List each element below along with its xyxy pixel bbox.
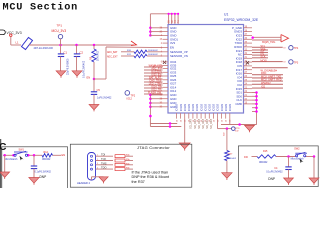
svg-text:4R7-2A-0603-DR: 4R7-2A-0603-DR: [34, 47, 54, 50]
svg-text:MOSI: MOSI: [260, 60, 267, 63]
svg-text:MCU_3V3: MCU_3V3: [52, 29, 67, 33]
wire right GND bus: [256, 93, 258, 125]
svg-text:DNP the R36 & Mount: DNP the R36 & Mount: [132, 175, 170, 179]
power net arrow on rail: [131, 41, 137, 46]
ground below U1: [179, 143, 190, 149]
svg-text:0.1uF6.3V0402: 0.1uF6.3V0402: [83, 60, 86, 78]
wire net IO12_TP: [144, 90, 163, 92]
svg-text:L1: L1: [16, 41, 20, 45]
svg-text:JTAG Connector: JTAG Connector: [137, 145, 170, 150]
svg-text:ADC_BAT: ADC_BAT: [107, 51, 118, 54]
svg-text:ADC_EXT: ADC_EXT: [107, 55, 118, 58]
svg-text:SD_DAT: SD_DAT: [206, 119, 209, 129]
svg-text:6: 6: [161, 62, 163, 64]
svg-text:0.1uF6.3V0402: 0.1uF6.3V0402: [35, 170, 52, 173]
svg-text:16: 16: [222, 119, 224, 122]
svg-text:1uF6.3V0402: 1uF6.3V0402: [97, 97, 112, 100]
svg-text:3V3: 3V3: [170, 41, 176, 45]
svg-text:IO: IO: [284, 62, 287, 64]
svg-text:IO13S: IO13S: [228, 104, 232, 112]
wire JTAG gnd stem: [91, 177, 93, 180]
svg-text:SW2: SW2: [294, 147, 300, 150]
wire 3V3 rail: [29, 44, 134, 46]
no-connect NC: [246, 61, 249, 64]
wire SW1 left to ground: [4, 155, 6, 172]
svg-text:11: 11: [160, 80, 163, 82]
ground C2: [72, 71, 82, 76]
svg-text:TP1: TP1: [57, 24, 63, 28]
connector J2 HEADER 4: [88, 153, 96, 181]
svg-text:WS2812: WS2812: [261, 82, 271, 85]
svg-text:SCK: SCK: [260, 56, 265, 59]
svg-text:SENSOR_VN: SENSOR_VN: [170, 54, 188, 58]
svg-text:C5: C5: [97, 88, 101, 92]
svg-text:IO13S: IO13S: [183, 104, 187, 112]
svg-text:0R0402: 0R0402: [42, 158, 51, 161]
svg-text:EN: EN: [62, 153, 66, 157]
svg-text:IO13S: IO13S: [175, 104, 179, 112]
wire GND bus bottom-left: [149, 95, 151, 127]
U1 right pins: [244, 27, 253, 29]
wire net MCU_UART_RXD: [252, 80, 283, 82]
ground C5: [89, 105, 99, 110]
svg-text:C1: C1: [64, 51, 68, 55]
capacitor C5: [93, 79, 95, 92]
ground R37: [222, 173, 232, 179]
test point TP9: [232, 127, 236, 131]
svg-text:IO13S: IO13S: [179, 104, 183, 112]
wire SW2 right to ground: [313, 157, 315, 179]
svg-text:IO13S: IO13S: [212, 104, 216, 112]
wire W_DISABLE#: [252, 67, 288, 69]
svg-text:100K0402: 100K0402: [148, 54, 159, 56]
svg-text:DNP: DNP: [268, 177, 275, 181]
svg-text:IO13S: IO13S: [195, 104, 199, 112]
svg-text:TP3: TP3: [294, 61, 299, 64]
svg-text:IO13S: IO13S: [199, 104, 203, 112]
svg-text:ESP32_WROOM_32E: ESP32_WROOM_32E: [224, 18, 259, 22]
wire BQ25_TRG with off-page arrow: [252, 36, 281, 38]
U1 bottom pins: [176, 113, 178, 119]
wire net ADC_PY: [144, 69, 163, 71]
svg-text:VCC_3V3: VCC_3V3: [7, 31, 22, 35]
svg-text:IO13S: IO13S: [216, 104, 220, 112]
svg-text:SD_DAT: SD_DAT: [198, 119, 201, 129]
ground right bus: [245, 125, 255, 130]
test point TP3: [289, 60, 293, 64]
svg-text:16: 16: [181, 119, 183, 122]
ground SW2: [309, 178, 319, 183]
box JTAG connector group: [70, 144, 192, 187]
svg-text:IO0: IO0: [244, 156, 249, 159]
svg-text:TMS: TMS: [101, 161, 107, 165]
svg-text:TP4: TP4: [294, 47, 299, 50]
ground SW1: [0, 172, 10, 177]
wire net BUZZER: [144, 72, 163, 74]
wire net LED_CTRL: [144, 84, 163, 86]
wire net MCU_UART_TXD: [252, 77, 283, 79]
svg-text:IO0: IO0: [224, 132, 226, 136]
svg-text:IO13S: IO13S: [187, 104, 191, 112]
svg-text:SD_DAT: SD_DAT: [194, 119, 197, 129]
U1 left pins: [163, 27, 169, 29]
svg-text:15: 15: [159, 39, 162, 41]
inductor L1: [22, 38, 33, 50]
U1 top pins: [168, 14, 170, 25]
svg-text:TDI: TDI: [101, 153, 105, 157]
svg-text:the R37: the R37: [132, 180, 145, 184]
svg-text:R3x: R3x: [126, 155, 130, 157]
svg-text:MicroSwitch: MicroSwitch: [5, 158, 19, 161]
resistor R5 10K0402: [93, 45, 95, 49]
svg-text:TCK: TCK: [101, 157, 106, 161]
svg-text:IO13S: IO13S: [203, 104, 207, 112]
test point TP2 IO12: [125, 91, 130, 96]
svg-text:IO2: IO2: [261, 86, 266, 89]
svg-text:10K0402: 10K0402: [97, 50, 100, 61]
svg-text:SD_DAT: SD_DAT: [210, 119, 213, 129]
svg-text:C2: C2: [80, 51, 84, 55]
ground C4: [284, 178, 294, 183]
svg-text:MicroSwitch: MicroSwitch: [291, 158, 305, 161]
svg-text:C4: C4: [274, 167, 278, 170]
wire SW1 row: [3, 154, 14, 156]
MCU U1 ESP32_WROOM_32E: [168, 25, 244, 114]
wire IO5 to TP3: [252, 61, 283, 63]
box IO0 switch group: [238, 146, 318, 187]
capacitor C1: [60, 45, 62, 54]
svg-text:U1: U1: [224, 13, 228, 17]
svg-text:IO12: IO12: [127, 98, 133, 101]
svg-text:R15: R15: [263, 150, 268, 153]
wire EN to U1: [94, 78, 106, 80]
svg-text:IO13S: IO13S: [224, 104, 228, 112]
sheet border + zone C: [0, 139, 2, 188]
wire SDA: [252, 49, 268, 51]
capacitor C3 DNP: [33, 155, 35, 166]
svg-text:41: 41: [177, 20, 180, 23]
svg-text:0.1uF6.3V0402: 0.1uF6.3V0402: [266, 171, 283, 174]
svg-text:2: 2: [161, 43, 163, 45]
svg-text:16: 16: [176, 119, 178, 122]
wire net WS2812: [252, 83, 283, 85]
svg-text:HEADER 4: HEADER 4: [77, 181, 91, 185]
ground C1: [56, 71, 66, 76]
svg-text:0R0402: 0R0402: [228, 158, 236, 160]
svg-text:IO13S: IO13S: [220, 104, 224, 112]
svg-text:16: 16: [226, 119, 228, 122]
resistor R37 0R0402: [225, 151, 229, 161]
svg-text:R3x: R3x: [126, 168, 130, 170]
wire IO18: [252, 57, 268, 59]
wire net BAT_ALRT: [144, 78, 163, 80]
svg-text:0R0402: 0R0402: [259, 161, 268, 164]
svg-text:IO13S: IO13S: [191, 104, 195, 112]
svg-text:BQ25_TRG: BQ25_TRG: [262, 41, 275, 44]
svg-text:SD_DAT: SD_DAT: [190, 119, 193, 129]
svg-text:16: 16: [213, 119, 215, 122]
svg-text:CMD: CMD: [235, 102, 242, 106]
ground JTAG: [99, 177, 108, 182]
svg-text:TDO: TDO: [101, 166, 106, 170]
wire IO21: [252, 52, 268, 54]
ground C3: [29, 178, 39, 184]
power port VCC_3V3: [0, 30, 5, 35]
capacitor C4 DNP: [288, 157, 290, 167]
svg-text:IO13S: IO13S: [208, 104, 212, 112]
wire IO19: [252, 54, 268, 56]
svg-text:SD_DAT: SD_DAT: [202, 119, 205, 129]
box EN switch group: [2, 147, 68, 189]
wire IO0 to R37: [217, 119, 219, 129]
svg-text:IO2: IO2: [235, 130, 239, 132]
svg-text:MCU Section: MCU Section: [3, 2, 79, 14]
wire net WKUP_INT: [144, 66, 163, 68]
wire net CHG_TRG: [144, 81, 163, 83]
svg-text:SW1: SW1: [19, 148, 25, 151]
svg-text:If the JTAG used than: If the JTAG used than: [132, 170, 169, 174]
svg-text:100K0402: 100K0402: [148, 50, 159, 52]
node EN: [93, 78, 96, 81]
capacitor C2: [76, 45, 78, 54]
svg-text:22uF6.3V0805: 22uF6.3V0805: [67, 58, 70, 75]
wire net FLASH_SW: [144, 93, 163, 95]
test point TP4: [289, 46, 293, 50]
wire net IO33_EX: [144, 75, 163, 77]
svg-text:IO: IO: [284, 47, 287, 49]
wire chip GND stem: [184, 119, 186, 143]
svg-text:EN: EN: [87, 76, 91, 80]
svg-text:DNP: DNP: [40, 175, 47, 179]
wire net IO14_TP: [144, 87, 163, 89]
svg-text:R3x: R3x: [126, 163, 130, 165]
wire GND bus top-left: [149, 14, 151, 36]
wire net RXD: [252, 74, 283, 76]
svg-text:R37: R37: [228, 153, 233, 155]
wire SCL to TP4: [252, 46, 283, 48]
svg-text:R3x: R3x: [126, 159, 130, 161]
wire VCC_3V3 down to rail: [10, 36, 12, 45]
wire net IO2: [252, 87, 283, 89]
